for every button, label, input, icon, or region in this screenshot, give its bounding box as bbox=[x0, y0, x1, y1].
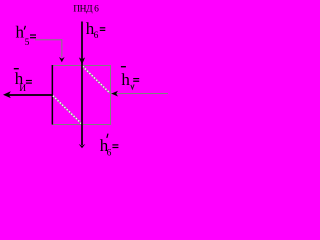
heater box ПНД top edge bbox=[52, 65, 111, 66]
label h-bar_И = left bbox=[14, 68, 32, 94]
arrowhead steam into box top bbox=[79, 57, 85, 64]
arrowhead condensate out left bbox=[3, 91, 11, 98]
diagonal heating-surface line 1 (faint base) bbox=[53, 96, 82, 124]
condensate inlet line (right, gray) bbox=[111, 93, 168, 94]
svg-text:И: И bbox=[19, 84, 26, 94]
heater box left edge bbox=[52, 65, 54, 125]
svg-text:6: 6 bbox=[94, 31, 99, 41]
diagonal heating-surface line 2 (white dots) bbox=[83, 66, 110, 93]
svg-text:h: h bbox=[16, 23, 25, 42]
arrowhead drain out bottom bbox=[79, 144, 86, 148]
condensate outlet line (left, black) bbox=[9, 94, 52, 96]
arrowhead condensate into box right bbox=[111, 91, 118, 97]
arrowhead drain into box top bbox=[59, 57, 65, 62]
svg-text:h: h bbox=[121, 70, 130, 89]
svg-text:ПНД 6: ПНД 6 bbox=[73, 5, 99, 15]
label h6= top right bbox=[86, 19, 106, 41]
diagonal heating-surface line 1 (white dots) bbox=[53, 96, 82, 124]
heater box bottom edge bbox=[52, 124, 111, 125]
svg-text:5: 5 bbox=[25, 38, 30, 48]
label h'5= top left bbox=[16, 23, 37, 48]
label h'6= bottom bbox=[100, 134, 119, 159]
diagonal heating-surface line 2 (faint base) bbox=[83, 66, 110, 93]
svg-text:6: 6 bbox=[107, 149, 112, 159]
steam extraction line h6 (center vertical) bbox=[81, 22, 83, 146]
label h-bar_в = right bbox=[121, 66, 139, 89]
drain inlet line h'5 vertical part bbox=[61, 39, 62, 57]
drain inlet line h'5 horizontal part bbox=[35, 39, 62, 40]
heater box right edge bbox=[110, 65, 111, 124]
